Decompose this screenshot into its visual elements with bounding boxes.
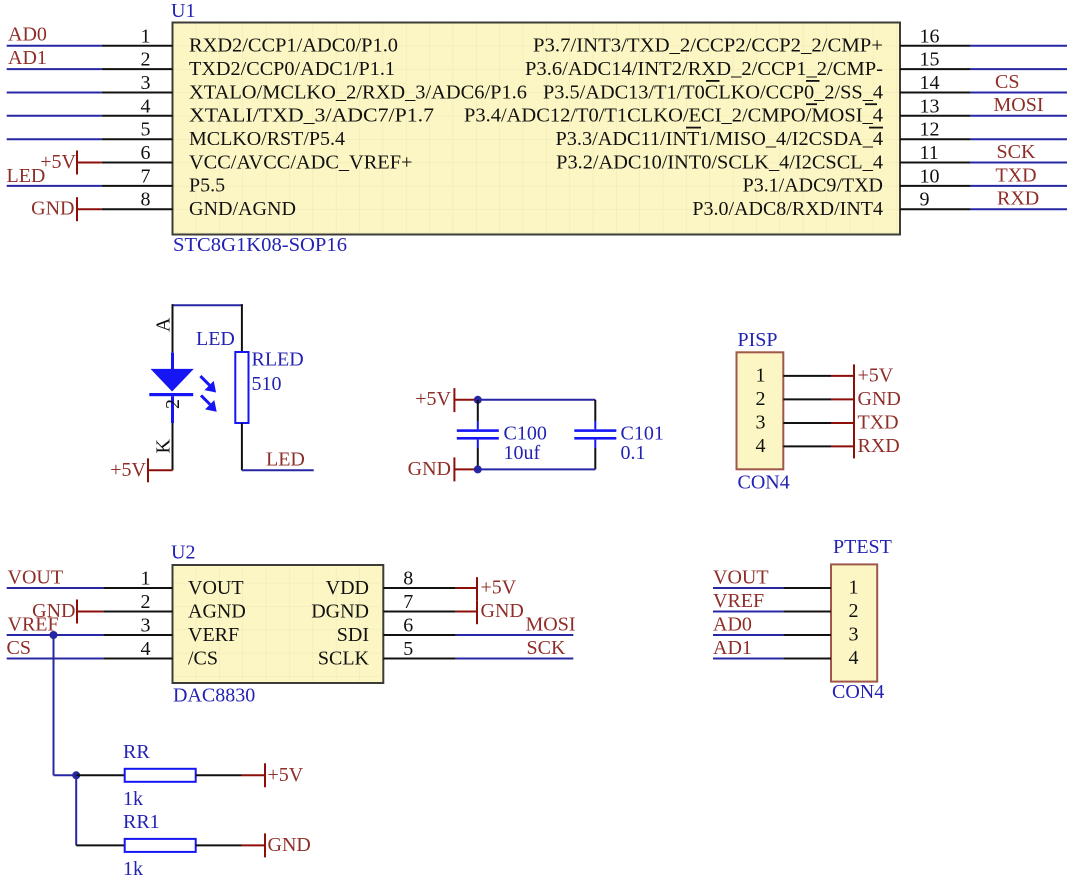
- power label TXD: [858, 412, 899, 434]
- U2 pin 1 (VOUT): [103, 568, 243, 600]
- wire net VREF to PTEST pin 2: [713, 611, 783, 613]
- overbar on CCP0(0) pin 14: [806, 80, 820, 82]
- svg-text:LED: LED: [196, 328, 235, 350]
- junction node +5V rail: [474, 396, 482, 404]
- svg-text:3: 3: [141, 72, 151, 94]
- svg-text:8: 8: [141, 189, 151, 211]
- svg-text:U1: U1: [171, 0, 195, 22]
- U1 pin 5 (MCLKO/RST/P5.4): [102, 119, 345, 150]
- power lead TXD at PISP pin 3: [831, 422, 854, 424]
- svg-text:1k: 1k: [123, 858, 143, 880]
- node label AD1: [8, 47, 47, 69]
- svg-text:VERF: VERF: [188, 624, 239, 646]
- wire net MOSI (U1 pin 13): [970, 115, 1067, 117]
- RR1 designator label: [123, 811, 160, 833]
- wire net VOUT to PTEST pin 1: [713, 587, 783, 589]
- svg-text:PTEST: PTEST: [833, 536, 892, 558]
- svg-text:4: 4: [756, 435, 766, 457]
- svg-text:CS: CS: [995, 71, 1019, 93]
- node label MOSI: [994, 94, 1044, 116]
- wire divider to RR1 vertical: [75, 775, 77, 845]
- wire VREF branch to RR: [54, 774, 77, 776]
- svg-text:MOSI: MOSI: [526, 614, 576, 636]
- svg-text:VREF: VREF: [713, 590, 764, 612]
- node label MOSI: [526, 614, 576, 636]
- svg-text:GND/AGND: GND/AGND: [189, 198, 296, 220]
- wire VREF branch vertical: [53, 635, 55, 775]
- U1 designator label: [171, 0, 195, 22]
- ground GND at U2 pin 2: [32, 600, 103, 624]
- node label VOUT: [8, 567, 64, 589]
- svg-text:XTALO/MCLKO_2/RXD_3/ADC6/P1.6: XTALO/MCLKO_2/RXD_3/ADC6/P1.6: [189, 81, 527, 103]
- wire U1 pin 16: [970, 45, 1067, 47]
- U2 pin 8 (VDD): [326, 568, 456, 600]
- svg-text:GND: GND: [268, 834, 311, 856]
- power lead GND at PISP pin 2: [831, 398, 854, 400]
- PTEST designator label: [833, 536, 892, 558]
- svg-text:K: K: [153, 439, 175, 454]
- svg-text:SDI: SDI: [337, 624, 369, 646]
- svg-text:1k: 1k: [123, 788, 143, 810]
- svg-text:5: 5: [403, 638, 413, 660]
- U1 pin 15 (P3.6/ADC14/INT2/RXD_2/CCP1_2/CMP-): [525, 49, 970, 80]
- node label AD0: [713, 614, 752, 636]
- svg-text:VOUT: VOUT: [8, 567, 64, 589]
- wire GND rail bottom: [478, 468, 596, 470]
- svg-text:3: 3: [849, 624, 859, 646]
- PTEST pin 2: [783, 600, 858, 622]
- svg-text:RR: RR: [123, 741, 150, 763]
- svg-text:0.1: 0.1: [621, 442, 646, 464]
- svg-text:MOSI: MOSI: [994, 94, 1044, 116]
- svg-text:1: 1: [849, 577, 859, 599]
- U2 pin 7 (DGND): [311, 591, 455, 623]
- svg-text:P3.0/ADC8/RXD/INT4: P3.0/ADC8/RXD/INT4: [692, 198, 883, 220]
- U1 pin 10 (P3.1/ADC9/TXD): [743, 165, 970, 196]
- C101 designator label: [621, 422, 664, 444]
- power label GND: [858, 388, 901, 410]
- op-amp U2 (IC DAC8830 body): [173, 565, 384, 683]
- overbar on T0CLKO(K) pin 14: [706, 80, 720, 82]
- U1 pin 16 (P3.7/INT3/TXD_2/CCP2/CCP2_2/CMP+): [533, 25, 970, 56]
- power +5V at U1 pin 6: [40, 151, 101, 175]
- resistor RR right lead: [196, 774, 242, 776]
- U1 pin 7 (P5.5): [102, 165, 225, 196]
- wire net MOSI (U2 pin 6): [456, 634, 574, 636]
- svg-text:+5V: +5V: [40, 151, 76, 173]
- RLED designator label: [252, 349, 304, 371]
- svg-text:VDD: VDD: [326, 577, 369, 599]
- U2 designator label: [171, 542, 195, 564]
- power label +5V: [858, 364, 894, 386]
- svg-text:GND: GND: [858, 388, 901, 410]
- node label VREF: [8, 614, 59, 636]
- svg-text:13: 13: [920, 95, 940, 117]
- svg-text:GND: GND: [31, 198, 74, 220]
- U2 pin 2 (AGND): [103, 591, 245, 623]
- svg-text:TXD: TXD: [996, 164, 1037, 186]
- wire net TXD (U1 pin 10): [970, 185, 1067, 187]
- svg-text:DGND: DGND: [311, 601, 369, 623]
- svg-text:5: 5: [141, 119, 151, 141]
- wire net AD0 to PTEST pin 3: [713, 634, 783, 636]
- PTEST pin 1: [783, 577, 858, 599]
- svg-text:LED: LED: [266, 449, 305, 471]
- LED designator label: [196, 328, 235, 350]
- U2 pin 4 (/CS): [103, 638, 218, 670]
- node label SCK: [997, 141, 1036, 163]
- wire U1 pin 12: [970, 138, 1067, 140]
- overbar on _4 pin 13: [865, 103, 877, 105]
- power lead RXD at PISP pin 4: [831, 445, 854, 447]
- svg-text:VCC/AVCC/ADC_VREF+: VCC/AVCC/ADC_VREF+: [189, 151, 413, 173]
- PISP pin 3: [756, 412, 832, 434]
- pin label A (anode) rotated: [153, 317, 175, 332]
- node label RXD: [997, 188, 1039, 210]
- U1 pin 12 (P3.3/ADC11/INT1/MISO_4/I2CSDA_4): [556, 119, 971, 150]
- svg-text:+5V: +5V: [415, 388, 451, 410]
- svg-text:XTALI/TXD_3/ADC7/P1.7: XTALI/TXD_3/ADC7/P1.7: [189, 105, 434, 127]
- svg-text:MCLKO/RST/P5.4: MCLKO/RST/P5.4: [189, 128, 345, 150]
- PISP value label CON4: [738, 472, 790, 494]
- resistor RLED top lead: [241, 304, 243, 352]
- junction node divider: [72, 771, 80, 779]
- svg-text:+5V: +5V: [858, 364, 894, 386]
- U1 pin 8 (GND/AGND): [102, 189, 296, 220]
- power +5V at C100 top: [415, 388, 478, 412]
- op-amp U1 (IC STC8G1K08-SOP16 body): [173, 23, 901, 235]
- capacitor C100: [457, 400, 499, 470]
- svg-text:6: 6: [141, 142, 151, 164]
- LED diode symbol: [149, 353, 194, 423]
- svg-text:STC8G1K08-SOP16: STC8G1K08-SOP16: [173, 234, 347, 256]
- svg-text:/CS: /CS: [188, 648, 218, 670]
- U1 pin 14 (P3.5/ADC13/T1/T0CLKO/CCP0_2/SS_4): [543, 72, 970, 103]
- svg-text:VOUT: VOUT: [188, 577, 244, 599]
- svg-text:TXD: TXD: [858, 412, 899, 434]
- resistor RLED: [235, 352, 248, 423]
- resistor RR: [125, 769, 196, 782]
- node label VOUT: [713, 567, 769, 589]
- node label LED: [266, 449, 305, 471]
- resistor RR left lead: [76, 774, 125, 776]
- node label TXD: [996, 164, 1037, 186]
- capacitor C101: [574, 400, 616, 470]
- overbar on MISO(M) pin 12: [686, 127, 701, 129]
- wire LED anode to RLED top: [172, 304, 243, 306]
- U2 pin 6 (SDI): [337, 615, 456, 647]
- node label CS: [995, 71, 1019, 93]
- U1 pin 4 (XTALI/TXD_3/ADC7/P1.7): [102, 95, 434, 126]
- RR1 value label 1k: [123, 858, 143, 880]
- svg-text:RR1: RR1: [123, 811, 160, 833]
- svg-text:RXD2/CCP1/ADC0/P1.0: RXD2/CCP1/ADC0/P1.0: [189, 35, 398, 57]
- svg-text:AD1: AD1: [713, 637, 752, 659]
- resistor RR1: [125, 839, 196, 852]
- PTEST pin 4: [783, 647, 858, 669]
- svg-text:15: 15: [920, 49, 940, 71]
- C100 value label 10uf: [504, 442, 541, 464]
- connector PTEST (CON4 body): [831, 564, 877, 681]
- svg-text:1: 1: [756, 364, 766, 386]
- svg-text:CON4: CON4: [832, 681, 884, 703]
- svg-text:P3.1/ADC9/TXD: P3.1/ADC9/TXD: [743, 175, 883, 197]
- U1 pin 1 (RXD2/CCP1/ADC0/P1.0): [102, 25, 398, 56]
- U1 pin 6 (VCC/AVCC/ADC_VREF+): [102, 142, 413, 173]
- wire net SCK (U1 pin 11): [970, 162, 1067, 164]
- node label VREF: [713, 590, 764, 612]
- svg-text:10uf: 10uf: [504, 442, 541, 464]
- wire net RXD (U1 pin 9): [970, 208, 1067, 210]
- node label AD0: [8, 24, 47, 46]
- svg-text:LED: LED: [7, 165, 46, 187]
- svg-text:CS: CS: [7, 637, 31, 659]
- wire net SCK (U2 pin 5): [456, 658, 574, 660]
- svg-text:AD0: AD0: [8, 24, 47, 46]
- PISP pin 4: [756, 435, 832, 457]
- svg-text:12: 12: [920, 119, 940, 141]
- LED pin number 2 rotated: [162, 399, 184, 409]
- svg-text:4: 4: [141, 95, 151, 117]
- U1 pin 13 (P3.4/ADC12/T0/T1CLKO/ECI_2/CMPO/MOSI_4): [464, 95, 970, 126]
- PISP designator label: [738, 329, 778, 351]
- svg-text:2: 2: [141, 591, 151, 613]
- svg-text:DAC8830: DAC8830: [173, 685, 255, 707]
- svg-text:+5V: +5V: [268, 764, 304, 786]
- svg-text:RXD: RXD: [997, 188, 1039, 210]
- U1 pin 9 (P3.0/ADC8/RXD/INT4): [692, 189, 970, 220]
- svg-text:510: 510: [252, 373, 282, 395]
- svg-text:SCLK: SCLK: [318, 648, 370, 670]
- power +5V at RR: [242, 763, 304, 787]
- svg-text:RXD: RXD: [858, 435, 900, 457]
- U1 pin 3 (XTALO/MCLKO_2/RXD_3/ADC6/P1.6): [102, 72, 527, 103]
- U1 pin 2 (TXD2/CCP0/ADC1/P1.1): [102, 49, 395, 80]
- svg-text:3: 3: [756, 412, 766, 434]
- wire net VREF (U2 pin 3): [7, 634, 104, 636]
- node label SCK: [527, 637, 566, 659]
- U2 value label DAC8830: [173, 685, 255, 707]
- wire +5V rail top: [478, 399, 596, 401]
- U2 pin 3 (VERF): [103, 615, 239, 647]
- junction node GND rail: [474, 465, 482, 473]
- wire U1 pin 5: [7, 138, 102, 140]
- svg-text:9: 9: [920, 189, 930, 211]
- svg-text:7: 7: [403, 591, 413, 613]
- resistor RR1 right lead: [196, 844, 242, 846]
- wire net CS (U2 pin 4): [7, 658, 104, 660]
- LED light arrow 2: [201, 395, 215, 410]
- svg-text:P3.5/ADC13/T1/T0CLKO/CCP0_2/SS: P3.5/ADC13/T1/T0CLKO/CCP0_2/SS_4: [543, 81, 883, 103]
- resistor RR1 left lead: [76, 844, 125, 846]
- svg-text:SCK: SCK: [997, 141, 1036, 163]
- svg-text:+5V: +5V: [481, 577, 517, 599]
- junction node VREF branch: [50, 631, 58, 639]
- C101 value label 0.1: [621, 442, 646, 464]
- svg-text:P5.5: P5.5: [189, 175, 225, 197]
- svg-text:10: 10: [920, 165, 940, 187]
- svg-text:TXD2/CCP0/ADC1/P1.1: TXD2/CCP0/ADC1/P1.1: [189, 58, 395, 80]
- power +5V at LED cathode: [110, 458, 172, 482]
- wire net VOUT (U2 pin 1): [7, 587, 104, 589]
- RLED value label 510: [252, 373, 282, 395]
- LED D? pin 1 lead (A): [172, 304, 174, 352]
- node label LED: [7, 165, 46, 187]
- RR value label 1k: [123, 788, 143, 810]
- PISP pin 2: [756, 388, 832, 410]
- svg-text:AGND: AGND: [188, 601, 246, 623]
- svg-text:8: 8: [403, 568, 413, 590]
- LED pin 2 lead (K): [172, 423, 174, 470]
- wire U1 pin 4: [7, 115, 102, 117]
- svg-text:PISP: PISP: [738, 329, 778, 351]
- LED light arrow 1: [200, 376, 214, 391]
- svg-text:+5V: +5V: [110, 459, 146, 481]
- svg-text:4: 4: [141, 638, 151, 660]
- U1 pin 11 (P3.2/ADC10/INT0/SCLK_4/I2CSCL_4): [556, 142, 970, 173]
- wire net AD0 (U1 pin 1): [7, 45, 102, 47]
- overbar on MOSI(M) pin 13: [806, 103, 817, 105]
- svg-text:P3.3/ADC11/INT1/MISO_4/I2CSDA_: P3.3/ADC11/INT1/MISO_4/I2CSDA_4: [556, 128, 884, 150]
- svg-text:16: 16: [920, 25, 940, 47]
- PTEST value label CON4: [832, 681, 884, 703]
- svg-text:CON4: CON4: [738, 472, 790, 494]
- ground GND at RR1: [242, 833, 311, 857]
- overbar on _4 pin 12: [869, 127, 883, 129]
- power label RXD: [858, 435, 900, 457]
- svg-text:14: 14: [920, 72, 940, 94]
- connector PISP (CON4 body): [737, 352, 784, 469]
- svg-text:6: 6: [403, 615, 413, 637]
- svg-text:A: A: [153, 317, 175, 332]
- wire net AD1 to PTEST pin 4: [713, 658, 783, 660]
- svg-text:GND: GND: [408, 458, 451, 480]
- svg-text:SCK: SCK: [527, 637, 566, 659]
- power bar PISP: [853, 364, 855, 458]
- wire net AD1 (U1 pin 2): [7, 68, 102, 70]
- node label AD1: [713, 637, 752, 659]
- svg-text:P3.4/ADC12/T0/T1CLKO/ECI_2/CMP: P3.4/ADC12/T0/T1CLKO/ECI_2/CMPO/MOSI_4: [464, 105, 883, 127]
- RR designator label: [123, 741, 150, 763]
- svg-text:1: 1: [141, 568, 151, 590]
- wire net CS (U1 pin 14): [970, 92, 1067, 94]
- svg-text:7: 7: [141, 165, 151, 187]
- power +5V at U2 pin 8: [456, 577, 517, 601]
- U1 value label STC8G1K08-SOP16: [173, 234, 347, 256]
- svg-text:P3.2/ADC10/INT0/SCLK_4/I2CSCL_: P3.2/ADC10/INT0/SCLK_4/I2CSCL_4: [556, 151, 883, 173]
- svg-text:AD1: AD1: [8, 47, 47, 69]
- svg-text:P3.6/ADC14/INT2/RXD_2/CCP1_2/C: P3.6/ADC14/INT2/RXD_2/CCP1_2/CMP-: [525, 58, 883, 80]
- U2 pin 5 (SCLK): [318, 638, 456, 670]
- PTEST pin 3: [783, 624, 858, 646]
- C100 designator label: [504, 422, 547, 444]
- svg-text:VOUT: VOUT: [713, 567, 769, 589]
- power lead +5V at PISP pin 1: [831, 375, 854, 377]
- wire U1 pin 3: [7, 92, 102, 94]
- svg-text:2: 2: [849, 600, 859, 622]
- svg-text:P3.7/INT3/TXD_2/CCP2/CCP2_2/CM: P3.7/INT3/TXD_2/CCP2/CCP2_2/CMP+: [533, 35, 883, 57]
- ground GND at U1 pin 8: [31, 197, 102, 221]
- svg-text:RLED: RLED: [252, 349, 304, 371]
- PISP pin 1: [756, 364, 832, 386]
- svg-text:GND: GND: [481, 600, 524, 622]
- svg-text:2: 2: [141, 49, 151, 71]
- wire net LED at RLED bottom: [242, 469, 314, 471]
- resistor RLED bottom lead: [241, 423, 243, 470]
- svg-text:4: 4: [849, 647, 859, 669]
- svg-text:2: 2: [162, 399, 184, 409]
- node label CS: [7, 637, 31, 659]
- wire U1 pin 15: [970, 68, 1067, 70]
- svg-text:1: 1: [141, 25, 151, 47]
- pin label K (cathode) rotated: [153, 439, 175, 454]
- svg-text:11: 11: [920, 142, 939, 164]
- svg-text:3: 3: [141, 615, 151, 637]
- svg-text:AD0: AD0: [713, 614, 752, 636]
- wire net LED (U1 pin 7): [7, 185, 102, 187]
- ground GND at U2 pin 7: [456, 600, 524, 624]
- svg-text:2: 2: [756, 388, 766, 410]
- ground GND at C100 bottom: [408, 457, 478, 481]
- svg-text:U2: U2: [171, 542, 195, 564]
